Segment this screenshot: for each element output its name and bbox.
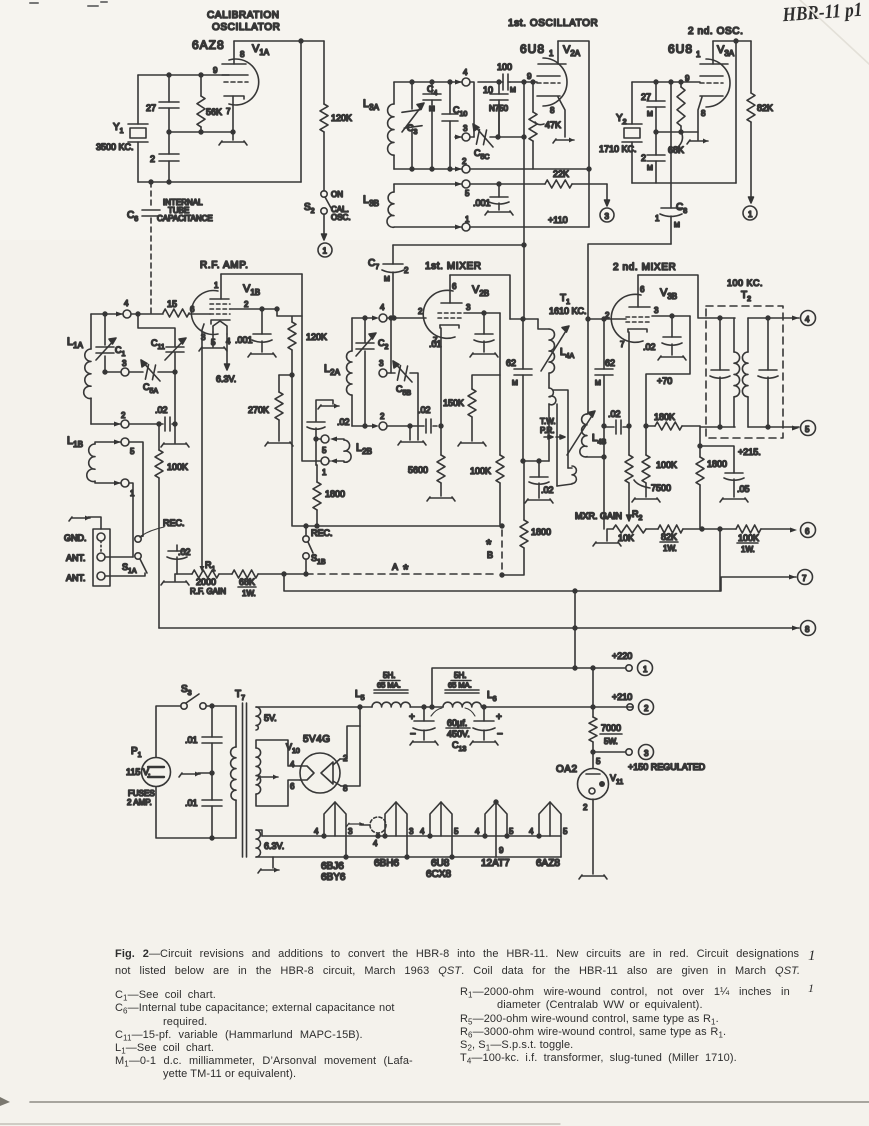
svg-text:.02: .02 bbox=[178, 547, 191, 557]
svg-text:15: 15 bbox=[167, 299, 177, 309]
T7 transformer bbox=[231, 689, 362, 857]
.02 + ground at R1 left bbox=[161, 545, 191, 585]
R1 pot bbox=[175, 560, 232, 596]
svg-text:M: M bbox=[510, 87, 516, 94]
V10 5V4G bbox=[286, 707, 360, 793]
svg-text:L1—See coil chart.: L1—See coil chart. bbox=[115, 1042, 214, 1056]
svg-text:5: 5 bbox=[454, 827, 459, 836]
+150 line bbox=[591, 750, 595, 754]
svg-text:2: 2 bbox=[404, 266, 409, 275]
svg-text:R5—200-ohm wire-wound control,: R5—200-ohm wire-wound control, same type… bbox=[460, 1013, 719, 1027]
svg-text:68K: 68K bbox=[239, 577, 255, 587]
12AT7 bbox=[475, 800, 514, 869]
caps 27 and 2 bbox=[641, 82, 665, 183]
svg-text:1: 1 bbox=[465, 215, 470, 224]
svg-text:6: 6 bbox=[640, 285, 645, 294]
svg-text:7000: 7000 bbox=[601, 723, 621, 733]
120K resistor bbox=[320, 41, 352, 191]
svg-text:C6—Internal tube capacitance;: C6—Internal tube capacitance; external c… bbox=[115, 1002, 395, 1016]
svg-text:1: 1 bbox=[655, 214, 660, 223]
svg-text:65 MA.: 65 MA. bbox=[377, 681, 401, 690]
grid wire from T1 bbox=[588, 318, 626, 320]
top plate wire bbox=[221, 273, 302, 275]
svg-text:5W.: 5W. bbox=[604, 737, 618, 746]
svg-text:8: 8 bbox=[550, 106, 555, 115]
svg-text:27: 27 bbox=[641, 92, 651, 102]
svg-text:100K: 100K bbox=[656, 460, 677, 470]
svg-text:.02: .02 bbox=[155, 405, 168, 415]
svg-text:.01: .01 bbox=[185, 798, 198, 808]
svg-text:6: 6 bbox=[190, 305, 195, 314]
primary bbox=[706, 317, 735, 319]
tube V1A bbox=[192, 38, 270, 140]
pin6 top wire to T2 bbox=[638, 275, 706, 318]
svg-text:+215.: +215. bbox=[738, 447, 761, 457]
svg-text:+150 REGULATED: +150 REGULATED bbox=[628, 762, 706, 772]
svg-text:8: 8 bbox=[701, 109, 706, 118]
C4 bbox=[431, 82, 433, 169]
svg-text:1610 KC.: 1610 KC. bbox=[549, 306, 587, 316]
+210 line bbox=[631, 706, 633, 708]
pin4 6.3V arrow bbox=[225, 334, 230, 370]
svg-text:1: 1 bbox=[323, 247, 328, 256]
svg-text:+: + bbox=[409, 712, 415, 723]
svg-text:5: 5 bbox=[596, 757, 601, 766]
grid wire bbox=[632, 81, 700, 83]
secondary bbox=[748, 317, 799, 319]
x500 vertical: 150K tap, 100K, to rail bbox=[499, 313, 501, 526]
tube V3B bbox=[605, 275, 677, 426]
100K 1W to terminal 6 bbox=[720, 523, 816, 555]
right loop wire bbox=[300, 41, 302, 182]
GND/ANT terminal strip bbox=[64, 516, 145, 587]
1800 + .05 + +215 node bbox=[696, 426, 761, 529]
svg-text:ANT.: ANT. bbox=[66, 553, 86, 563]
wires bbox=[105, 556, 133, 558]
grid wire y82 bbox=[510, 81, 537, 83]
svg-text:3: 3 bbox=[605, 212, 610, 221]
pin5 ground bbox=[212, 332, 214, 347]
svg-text:.01: .01 bbox=[185, 735, 198, 745]
svg-text:6CX8: 6CX8 bbox=[426, 869, 451, 880]
svg-text:−: − bbox=[410, 729, 416, 740]
twisted pair link bbox=[553, 390, 568, 468]
svg-text:2: 2 bbox=[644, 704, 649, 713]
rail y526 bbox=[293, 525, 502, 527]
.001 cap to gnd bbox=[235, 309, 276, 357]
svg-text:3: 3 bbox=[379, 359, 384, 368]
svg-text:6: 6 bbox=[805, 527, 810, 536]
svg-text:115 V.: 115 V. bbox=[126, 767, 151, 777]
svg-text:62: 62 bbox=[506, 358, 516, 368]
150K bbox=[443, 375, 500, 446]
6AZ8 bbox=[529, 802, 568, 869]
svg-text:5: 5 bbox=[322, 446, 327, 455]
ground under pin 7 bbox=[219, 141, 247, 145]
svg-text:Fig. 2—Circuit revisions and a: Fig. 2—Circuit revisions and additions t… bbox=[115, 948, 800, 960]
100K to rail8 bbox=[155, 424, 188, 628]
svg-text:8: 8 bbox=[805, 625, 810, 634]
svg-text:M: M bbox=[512, 380, 518, 387]
68K 1W bbox=[232, 570, 306, 598]
svg-text:5H.: 5H. bbox=[454, 671, 466, 680]
svg-text:3: 3 bbox=[122, 359, 127, 368]
svg-text:2: 2 bbox=[121, 411, 126, 420]
pilot light bbox=[347, 817, 386, 848]
svg-text:2: 2 bbox=[380, 412, 385, 421]
svg-text:56K: 56K bbox=[206, 107, 222, 117]
svg-text:2 AMP.: 2 AMP. bbox=[127, 798, 152, 807]
wires from terminals to switch bbox=[129, 442, 143, 536]
10 / N750 cap bbox=[483, 80, 509, 137]
svg-text:3: 3 bbox=[466, 303, 471, 312]
svg-text:REC.: REC. bbox=[163, 518, 185, 528]
svg-text:5: 5 bbox=[563, 827, 568, 836]
svg-text:1: 1 bbox=[549, 49, 554, 58]
.02 above L2B with gnd arrow bbox=[307, 400, 350, 465]
svg-text:5: 5 bbox=[509, 827, 514, 836]
svg-text:M: M bbox=[647, 165, 653, 172]
y461 node: .02 to gnd, 1800 below bbox=[520, 459, 554, 548]
svg-text:7500: 7500 bbox=[651, 483, 671, 493]
grid input wire with 15 ohm bbox=[131, 313, 210, 315]
180K bbox=[646, 412, 700, 430]
.01 caps chain bbox=[179, 706, 222, 838]
switch S2 bbox=[304, 190, 351, 257]
svg-text:4: 4 bbox=[529, 827, 534, 836]
svg-text:R1—2000-ohm wire-wound control: R1—2000-ohm wire-wound control, not over… bbox=[460, 986, 790, 1000]
svg-text:4: 4 bbox=[420, 827, 425, 836]
L1A tank bbox=[67, 299, 175, 431]
svg-text:OSC.: OSC. bbox=[331, 213, 351, 222]
svg-text:OA2: OA2 bbox=[556, 764, 578, 775]
svg-text:3: 3 bbox=[463, 124, 468, 133]
crystal Y1 bbox=[96, 122, 148, 152]
cathode 5600 bbox=[408, 424, 455, 501]
svg-text:82K: 82K bbox=[757, 103, 773, 113]
svg-text:+70: +70 bbox=[657, 376, 672, 386]
svg-text:.001: .001 bbox=[235, 335, 253, 345]
47K bbox=[529, 82, 561, 169]
svg-text:not listed below are in the HB: not listed below are in the HBR-8 circui… bbox=[115, 965, 800, 977]
svg-text:*: * bbox=[403, 561, 409, 577]
7000 5W down rail bbox=[592, 668, 594, 752]
svg-text:4: 4 bbox=[475, 827, 480, 836]
terminal 2 bbox=[372, 424, 379, 429]
L2A tank bbox=[324, 303, 437, 445]
svg-text:OSCILLATOR: OSCILLATOR bbox=[212, 22, 280, 33]
svg-text:3: 3 bbox=[654, 306, 659, 315]
svg-text:1: 1 bbox=[808, 948, 816, 964]
svg-text:6BJ6: 6BJ6 bbox=[321, 861, 344, 872]
svg-text:6: 6 bbox=[452, 282, 457, 291]
svg-text:1W.: 1W. bbox=[663, 544, 677, 553]
pin3 wire + .02 bbox=[652, 315, 690, 317]
bottom rail bbox=[632, 182, 736, 184]
svg-text:82K: 82K bbox=[661, 532, 677, 542]
svg-text:5V4G: 5V4G bbox=[303, 734, 331, 745]
svg-text:C11—15-pf. variable (Hammarlun: C11—15-pf. variable (Hammarlund MAPC-15B… bbox=[115, 1029, 363, 1043]
svg-text:C1—See coil chart.: C1—See coil chart. bbox=[115, 989, 216, 1003]
tube V3A bbox=[668, 41, 735, 144]
primary bbox=[235, 706, 237, 747]
82K 1W bbox=[658, 525, 722, 553]
resistor 56K bbox=[197, 75, 222, 132]
+70 line and 100K bbox=[646, 316, 690, 426]
S1A switch bbox=[122, 518, 185, 575]
svg-text:1800: 1800 bbox=[325, 489, 345, 499]
C1 variable bbox=[104, 314, 106, 372]
svg-text:4: 4 bbox=[463, 68, 468, 77]
svg-text:6BY6: 6BY6 bbox=[321, 872, 346, 883]
S1B bbox=[303, 526, 333, 574]
terminal 3 bbox=[105, 371, 121, 373]
.02 series to cathode line bbox=[604, 409, 629, 434]
svg-text:CAPACITANCE: CAPACITANCE bbox=[157, 214, 213, 223]
fold crease top right bbox=[800, 0, 869, 64]
top rail bbox=[713, 40, 751, 42]
svg-text:12AT7: 12AT7 bbox=[481, 858, 510, 869]
left rail with crystal Y1 bbox=[137, 75, 139, 182]
svg-text:1800: 1800 bbox=[531, 527, 551, 537]
svg-text:7: 7 bbox=[802, 574, 807, 583]
plate rail box bbox=[558, 41, 589, 227]
svg-text:M: M bbox=[384, 276, 390, 283]
svg-text:1: 1 bbox=[748, 210, 753, 219]
cathode 7500 down to wiper bbox=[625, 424, 671, 521]
svg-text:2000: 2000 bbox=[196, 577, 216, 587]
svg-text:2: 2 bbox=[418, 307, 423, 316]
pin2 wire right bbox=[230, 308, 277, 310]
svg-text:9: 9 bbox=[213, 66, 218, 75]
link down to bus7 bbox=[719, 529, 721, 591]
svg-text:R.F. GAIN: R.F. GAIN bbox=[190, 587, 226, 596]
svg-text:6: 6 bbox=[290, 782, 295, 791]
svg-text:6AZ8: 6AZ8 bbox=[192, 38, 225, 52]
rectifier filament winding bbox=[256, 748, 261, 794]
svg-text:2: 2 bbox=[583, 803, 588, 812]
L4B bbox=[586, 319, 588, 414]
mid wire bbox=[656, 131, 698, 133]
tube V2A bbox=[520, 41, 581, 143]
C3 variable bbox=[411, 82, 413, 169]
terminals 4,3,2 bbox=[455, 68, 591, 173]
svg-text:5: 5 bbox=[805, 425, 810, 434]
svg-text:2: 2 bbox=[150, 154, 155, 164]
L4A bbox=[538, 319, 549, 329]
svg-text:ON: ON bbox=[331, 190, 343, 199]
svg-text:10K: 10K bbox=[618, 533, 634, 543]
svg-text:6U8: 6U8 bbox=[520, 42, 545, 56]
svg-text:R.F. AMP.: R.F. AMP. bbox=[200, 260, 249, 271]
mid wire bbox=[169, 131, 233, 133]
terminals 4,5 bbox=[792, 316, 799, 321]
svg-text:CALIBRATION: CALIBRATION bbox=[207, 10, 280, 21]
C10 bbox=[449, 82, 451, 169]
svg-text:1800: 1800 bbox=[707, 459, 727, 469]
svg-text:.02: .02 bbox=[608, 409, 621, 419]
svg-text:120K: 120K bbox=[331, 113, 352, 123]
svg-text:5: 5 bbox=[130, 447, 135, 456]
svg-text:47K: 47K bbox=[545, 120, 561, 130]
tube V2B bbox=[418, 275, 489, 426]
MXR gain pot R2 bbox=[575, 509, 658, 546]
tube V1B bbox=[190, 274, 260, 568]
svg-text:required.: required. bbox=[163, 1016, 207, 1028]
C5A bbox=[129, 371, 143, 373]
svg-text:S2, S1—S.p.s.t. toggle.: S2, S1—S.p.s.t. toggle. bbox=[460, 1039, 573, 1053]
osc output vertical to mixer bbox=[523, 82, 525, 319]
svg-text:GND.: GND. bbox=[64, 533, 87, 543]
pin3 wire + .01 bbox=[464, 312, 500, 314]
svg-text:6AZ8: 6AZ8 bbox=[536, 858, 560, 869]
svg-text:65 MA.: 65 MA. bbox=[448, 681, 472, 690]
.001 cap bbox=[470, 182, 607, 215]
svg-text:1W.: 1W. bbox=[741, 545, 755, 554]
svg-text:diameter (Centralab WW or equi: diameter (Centralab WW or equivalent). bbox=[497, 999, 703, 1011]
L1B bbox=[67, 435, 135, 498]
svg-text:2 nd. OSC.: 2 nd. OSC. bbox=[688, 26, 743, 37]
svg-text:P.R.: P.R. bbox=[540, 426, 555, 435]
68K bbox=[668, 82, 685, 155]
svg-text:60μf.: 60μf. bbox=[447, 718, 467, 728]
svg-text:62: 62 bbox=[605, 358, 615, 368]
C7 link down to mixer bbox=[368, 245, 524, 317]
svg-text:5V.: 5V. bbox=[264, 713, 277, 723]
svg-text:4: 4 bbox=[314, 827, 319, 836]
left rail with crystal Y2 bbox=[631, 82, 633, 183]
svg-text:6.3V.: 6.3V. bbox=[264, 841, 284, 851]
svg-text:180K: 180K bbox=[654, 412, 675, 422]
svg-text:1: 1 bbox=[322, 468, 327, 477]
svg-text:120K: 120K bbox=[306, 332, 327, 342]
svg-text:.02: .02 bbox=[418, 405, 431, 415]
A bus dashed bbox=[306, 573, 497, 575]
svg-text:1: 1 bbox=[214, 281, 219, 290]
P1 plug bbox=[126, 746, 171, 807]
6BJ6/6BY6 bbox=[314, 802, 353, 883]
link to 1800 of mixer1 bbox=[502, 548, 524, 575]
svg-text:6U8: 6U8 bbox=[668, 42, 693, 56]
svg-text:3: 3 bbox=[409, 827, 414, 836]
6BH6 bbox=[374, 802, 414, 869]
svg-text:100K: 100K bbox=[470, 466, 491, 476]
svg-text:2: 2 bbox=[244, 300, 249, 309]
svg-text:M: M bbox=[595, 380, 601, 387]
120K chain down to rail bbox=[277, 309, 327, 526]
svg-text:10: 10 bbox=[483, 85, 493, 95]
grid node y319 bbox=[510, 318, 538, 320]
svg-text:9: 9 bbox=[527, 72, 532, 81]
1800 from L2B .02 node bbox=[313, 465, 345, 526]
6U8/6CX8 bbox=[420, 802, 459, 880]
terminal 3 + C5B bbox=[379, 369, 387, 377]
62 M cap chain bbox=[506, 319, 532, 463]
svg-text:100K: 100K bbox=[167, 462, 188, 472]
svg-text:1710 KC.: 1710 KC. bbox=[599, 144, 637, 154]
L5 choke bbox=[355, 671, 424, 707]
terminal 2 bbox=[121, 420, 129, 428]
svg-text:5: 5 bbox=[465, 189, 470, 198]
top rail wire bbox=[234, 40, 324, 42]
svg-text:MXR. GAIN: MXR. GAIN bbox=[575, 511, 622, 521]
C11 chain vertical bbox=[138, 314, 189, 447]
svg-text:yette TM-11 or equivalent).: yette TM-11 or equivalent). bbox=[163, 1068, 296, 1080]
OA2 bbox=[556, 752, 623, 879]
22K bbox=[545, 169, 614, 222]
svg-text:8: 8 bbox=[240, 50, 245, 59]
svg-text:R6—3000-ohm wire-wound control: R6—3000-ohm wire-wound control, same typ… bbox=[460, 1026, 726, 1040]
link2 winding bbox=[568, 467, 572, 469]
svg-text:A: A bbox=[392, 562, 398, 572]
svg-text:6BH6: 6BH6 bbox=[374, 858, 399, 869]
svg-text:2: 2 bbox=[462, 157, 467, 166]
.02 series cap bbox=[129, 423, 175, 425]
svg-text:4: 4 bbox=[373, 839, 378, 848]
L3B bbox=[363, 180, 589, 231]
svg-text:450V.: 450V. bbox=[447, 729, 470, 739]
svg-text:T.W.: T.W. bbox=[540, 417, 556, 426]
svg-text:+210: +210 bbox=[612, 692, 632, 702]
svg-text:+110: +110 bbox=[548, 215, 568, 225]
svg-text:100: 100 bbox=[497, 62, 512, 72]
svg-text:−: − bbox=[497, 729, 503, 740]
cathode to R1 wiper bbox=[200, 566, 205, 572]
5V winding bbox=[256, 707, 261, 730]
svg-text:7: 7 bbox=[620, 340, 625, 349]
svg-text:2: 2 bbox=[641, 153, 646, 163]
ground at top bbox=[88, 517, 101, 529]
svg-text:.02: .02 bbox=[337, 417, 350, 427]
filter caps C13 bbox=[409, 705, 503, 753]
.02 series to cathode line bbox=[387, 425, 437, 427]
svg-text:1st. MIXER: 1st. MIXER bbox=[425, 261, 482, 272]
L6 choke bbox=[424, 671, 632, 707]
svg-text:1: 1 bbox=[808, 981, 814, 995]
pin9 wire bbox=[138, 74, 229, 76]
svg-text:3: 3 bbox=[644, 749, 649, 758]
C2 variable bbox=[364, 318, 366, 426]
svg-text:M: M bbox=[674, 222, 680, 229]
pin3 cathode line down bbox=[202, 324, 204, 568]
svg-text:5H.: 5H. bbox=[383, 671, 395, 680]
svg-text:1: 1 bbox=[643, 665, 648, 674]
svg-text:1: 1 bbox=[696, 50, 701, 59]
svg-text:9: 9 bbox=[499, 846, 504, 855]
270K to ground bbox=[248, 373, 294, 446]
svg-text:100 KC.: 100 KC. bbox=[727, 278, 763, 288]
svg-text:T4—100-kc. i.f. transformer, s: T4—100-kc. i.f. transformer, slug-tuned … bbox=[460, 1052, 737, 1066]
svg-text:27: 27 bbox=[146, 103, 156, 113]
svg-text:.01: .01 bbox=[429, 339, 442, 349]
cap 27 bbox=[146, 75, 179, 132]
svg-text:270K: 270K bbox=[248, 405, 269, 415]
C8 down-link bbox=[588, 82, 687, 319]
svg-text:7: 7 bbox=[226, 107, 231, 116]
S3 bbox=[181, 684, 206, 709]
svg-text:3: 3 bbox=[348, 827, 353, 836]
svg-text:4: 4 bbox=[290, 760, 295, 769]
svg-text:+220: +220 bbox=[612, 651, 632, 661]
svg-text:FUSES: FUSES bbox=[128, 789, 155, 798]
svg-text:.05: .05 bbox=[737, 484, 750, 494]
bus y591 to terminal 7 bbox=[284, 574, 796, 591]
svg-text:2 nd. MIXER: 2 nd. MIXER bbox=[613, 262, 676, 273]
svg-text:100K: 100K bbox=[738, 533, 759, 543]
svg-text:6U8: 6U8 bbox=[431, 858, 450, 869]
svg-text:M: M bbox=[429, 106, 435, 113]
svg-text:22K: 22K bbox=[553, 169, 569, 179]
